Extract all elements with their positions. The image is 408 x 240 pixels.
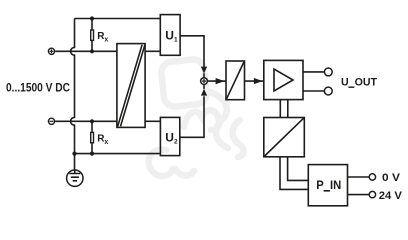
wire 24V bbox=[348, 194, 369, 196]
isolation amplifier bbox=[226, 61, 245, 100]
wire amplifier to dcdc right bbox=[287, 100, 289, 118]
wire output bottom bbox=[303, 90, 324, 92]
svg-text:Rx: Rx bbox=[97, 134, 108, 146]
svg-text:Rx: Rx bbox=[97, 31, 108, 43]
arrow into summer from bottom bbox=[201, 89, 207, 96]
svg-text:U_OUT: U_OUT bbox=[341, 76, 377, 88]
junction dot bottom rail resistor bbox=[90, 152, 94, 156]
wire dcdc to pin outer bbox=[280, 157, 308, 190]
wire bottom rail bbox=[75, 153, 161, 155]
wire secondary top bbox=[145, 50, 160, 52]
wire amplifier to dcdc left bbox=[279, 100, 281, 118]
resistor Rx upper bbox=[91, 19, 94, 52]
dc dc converter bbox=[264, 118, 305, 157]
svg-text:0 V: 0 V bbox=[382, 172, 400, 184]
wire top rail bbox=[75, 18, 161, 20]
transformer T1 bbox=[117, 44, 145, 128]
block U2 bbox=[160, 117, 179, 155]
terminal output top bbox=[324, 68, 332, 76]
wire U2 to summer bbox=[180, 96, 204, 137]
wire minus input bbox=[55, 120, 117, 122]
wire summer to isolator bbox=[208, 80, 226, 82]
wire plus input bbox=[55, 50, 117, 52]
terminal minus bbox=[48, 118, 54, 124]
wire 0V bbox=[348, 176, 369, 178]
wire dcdc to pin inner bbox=[288, 157, 309, 181]
svg-text:0...1500 V DC: 0...1500 V DC bbox=[6, 81, 70, 95]
wire output top bbox=[303, 71, 324, 73]
arrow into summer from top bbox=[201, 67, 207, 74]
block U1 bbox=[160, 15, 180, 56]
resistor Rx lower bbox=[91, 121, 94, 153]
summing junction bbox=[201, 73, 208, 89]
amplifier block bbox=[264, 60, 303, 99]
terminal output bottom bbox=[324, 87, 332, 95]
ground protective earth bbox=[67, 154, 83, 187]
terminal 24V bbox=[369, 191, 375, 197]
wire secondary bottom bbox=[145, 120, 160, 122]
junction dot bottom rail shield bbox=[72, 152, 76, 156]
svg-text:24 V: 24 V bbox=[379, 190, 403, 202]
arrow into amplifier bbox=[254, 78, 263, 84]
junction dot top rail bbox=[90, 16, 94, 20]
wire shield vertical with hops bbox=[71, 19, 75, 154]
wire isolator to amplifier bbox=[245, 80, 264, 82]
junction dot plus wire bbox=[90, 49, 94, 53]
wire U1 to summer bbox=[180, 36, 204, 67]
terminal 0V bbox=[369, 174, 375, 180]
terminal plus bbox=[48, 48, 54, 54]
junction dot minus wire bbox=[90, 119, 94, 123]
block P_IN bbox=[308, 165, 347, 206]
arrow into isolator bbox=[216, 78, 225, 84]
